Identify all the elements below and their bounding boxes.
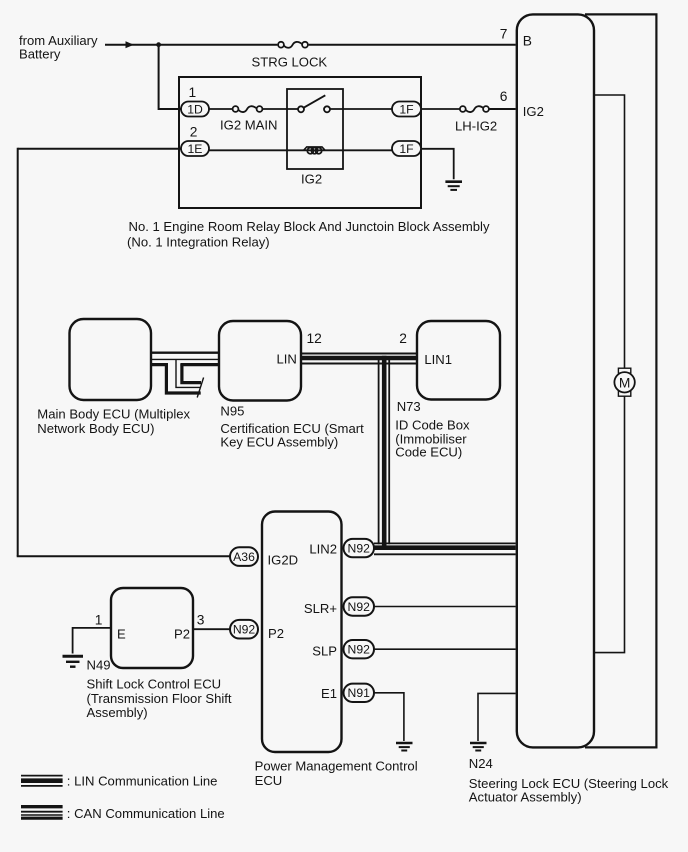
svg-text:2: 2: [399, 331, 407, 346]
ground N24: [470, 743, 487, 751]
label relay block assembly: [127, 219, 490, 249]
connector 1E: [181, 141, 209, 156]
wire E to ground: [73, 628, 111, 654]
fuse STRG LOCK: [252, 42, 328, 70]
PMC pin labels: [268, 542, 338, 702]
svg-text:P2: P2: [174, 627, 190, 642]
svg-text:(No. 1 Integration Relay): (No. 1 Integration Relay): [127, 234, 270, 249]
wire SLR+: [374, 606, 516, 608]
N95 Certification ECU box: [219, 321, 301, 401]
svg-text:LH-IG2: LH-IG2: [455, 118, 497, 133]
svg-text:12: 12: [307, 331, 322, 346]
connector 1F top: [392, 102, 421, 117]
wire left bus to A36: [17, 555, 230, 557]
motor M: [614, 368, 634, 396]
connector N92 at SLR+: [344, 597, 375, 615]
svg-text:ECU: ECU: [255, 773, 283, 788]
svg-text:N91: N91: [348, 686, 371, 700]
svg-text:IG2: IG2: [301, 172, 322, 187]
svg-text:LIN2: LIN2: [309, 542, 337, 557]
svg-text:ID Code Box: ID Code Box: [395, 418, 470, 433]
label power management: [255, 759, 418, 788]
svg-text:3: 3: [197, 612, 205, 627]
N73 labels: [395, 331, 470, 460]
wire battery feed with arrow: [105, 41, 277, 48]
connector N91 at E1: [344, 684, 375, 702]
svg-text:N92: N92: [348, 542, 371, 556]
relay contact: [298, 95, 392, 112]
shift lock pin labels: [95, 612, 205, 641]
svg-text:N73: N73: [397, 399, 421, 414]
wire left bus vertical: [17, 148, 19, 557]
svg-text:N95: N95: [220, 404, 244, 419]
label from Auxiliary Battery: [19, 33, 98, 62]
svg-text:Power Management Control: Power Management Control: [255, 759, 418, 774]
connector 1F bottom: [392, 141, 421, 156]
svg-text:IG2 MAIN: IG2 MAIN: [220, 117, 277, 132]
svg-text:E1: E1: [321, 686, 337, 701]
svg-text:1F: 1F: [399, 142, 413, 156]
svg-text:1D: 1D: [187, 102, 203, 116]
wire motor feed: [594, 95, 625, 368]
svg-text:B: B: [523, 34, 532, 49]
fuse LH-IG2: [421, 106, 516, 133]
CAN band Main Body to N95: [151, 353, 219, 365]
label Main Body ECU: [37, 407, 190, 436]
LIN band to LIN2: [374, 543, 516, 554]
legend LIN symbol: [21, 776, 63, 786]
Power Management Control ECU box: [262, 512, 342, 753]
LIN branch vertical band: [379, 356, 390, 550]
wire 1F to ground: [421, 149, 454, 180]
fuse IG2 MAIN: [209, 106, 298, 132]
svg-text:N24: N24: [469, 756, 493, 771]
CAN branch stub: [166, 360, 203, 398]
svg-text:Key ECU Assembly): Key ECU Assembly): [220, 434, 338, 449]
LIN band N95 to N73: [301, 354, 417, 364]
svg-text:E: E: [117, 627, 126, 642]
svg-text:Main Body ECU (Multiplex: Main Body ECU (Multiplex: [37, 407, 190, 422]
ground E1: [396, 743, 413, 751]
svg-text:N92: N92: [348, 600, 371, 614]
label steering lock ecu: [469, 776, 669, 805]
svg-text:Actuator Assembly): Actuator Assembly): [469, 790, 582, 805]
svg-text:7: 7: [500, 27, 508, 42]
svg-text:SLP: SLP: [312, 644, 337, 659]
svg-text:N92: N92: [233, 623, 256, 637]
svg-text:LIN: LIN: [277, 352, 297, 367]
svg-text:STRG LOCK: STRG LOCK: [252, 54, 328, 69]
Main Body ECU box: [70, 319, 152, 400]
wire SLP: [374, 648, 516, 650]
wire junction to relay pin 1D: [159, 45, 181, 109]
node junction dot: [156, 42, 161, 47]
connector 1D: [181, 102, 209, 117]
wire motor return: [594, 396, 625, 652]
wire P2 to N92: [193, 628, 230, 630]
svg-text:1F: 1F: [399, 102, 413, 116]
label shift lock ecu: [87, 677, 232, 720]
svg-text:(Transmission Floor Shift: (Transmission Floor Shift: [87, 691, 232, 706]
relay IG2 inner box: [287, 89, 343, 169]
connector N92 at LIN2: [344, 539, 375, 557]
legend CAN symbol: [21, 807, 63, 819]
svg-text:Assembly): Assembly): [87, 705, 148, 720]
connector N92 at P2: [230, 620, 258, 639]
svg-text:IG2: IG2: [523, 104, 544, 119]
Steering Lock ECU box: [517, 14, 594, 747]
svg-text:LIN1: LIN1: [424, 352, 452, 367]
svg-text:1: 1: [189, 85, 197, 100]
connector N92 at SLP: [344, 640, 375, 658]
svg-text:Battery: Battery: [19, 47, 61, 62]
steering assembly outer outline: [585, 14, 656, 747]
svg-text:No. 1 Engine Room Relay Block: No. 1 Engine Room Relay Block And Juncto…: [129, 219, 490, 234]
svg-text:Code ECU): Code ECU): [395, 444, 462, 459]
N95 labels: [220, 331, 364, 449]
svg-text:6: 6: [500, 89, 508, 104]
svg-text:: CAN Communication Line: : CAN Communication Line: [67, 806, 225, 821]
wire 1E to left bus: [18, 148, 181, 150]
svg-text:N49: N49: [87, 658, 111, 673]
svg-text:N92: N92: [348, 643, 371, 657]
svg-text:SLR+: SLR+: [304, 601, 337, 616]
svg-text:1E: 1E: [188, 142, 203, 156]
connector A36: [230, 547, 258, 566]
svg-text:Shift Lock Control ECU: Shift Lock Control ECU: [87, 677, 222, 692]
wire E1 to ground: [374, 693, 404, 741]
ground relay block: [445, 182, 462, 190]
svg-text:P2: P2: [268, 626, 284, 641]
svg-text:M: M: [619, 375, 631, 390]
svg-text:Steering Lock ECU (Steering Lo: Steering Lock ECU (Steering Lock: [469, 776, 669, 791]
wire N24 ground: [478, 693, 516, 741]
wire battery to pin B: [309, 44, 516, 46]
svg-text:IG2D: IG2D: [268, 552, 299, 567]
svg-text:1: 1: [95, 612, 103, 627]
relay block No.1 engine room rectangle: [179, 77, 421, 208]
svg-text:A36: A36: [233, 550, 255, 564]
svg-text:Network Body ECU): Network Body ECU): [37, 421, 154, 436]
Shift Lock Control ECU box: [111, 588, 193, 668]
N73 ID code box: [417, 321, 500, 400]
svg-text:2: 2: [190, 124, 198, 139]
ground N49: [63, 656, 84, 666]
relay coil: [209, 147, 392, 154]
svg-text:: LIN Communication Line: : LIN Communication Line: [67, 774, 218, 789]
